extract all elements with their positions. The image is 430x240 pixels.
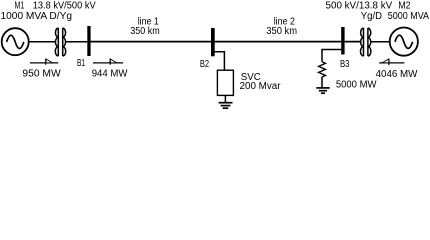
wire line 1 (B1 to B2)	[91, 41, 211, 43]
svg-text:4046 MW: 4046 MW	[376, 69, 418, 80]
svg-text:200 Mvar: 200 Mvar	[240, 81, 282, 92]
svg-text:1000 MVA D/Yg: 1000 MVA D/Yg	[1, 11, 73, 22]
svg-text:B2: B2	[200, 59, 210, 70]
wire line 2 (B2 to B3)	[215, 41, 342, 43]
svg-text:Yg/D: Yg/D	[361, 11, 382, 22]
wire T1 to bus B1	[66, 41, 88, 43]
ground (SVC)	[219, 103, 233, 109]
bus B3	[341, 27, 344, 55]
svg-text:13.8 kV/500 kV: 13.8 kV/500 kV	[33, 1, 96, 12]
svg-text:350 km: 350 km	[266, 26, 297, 37]
ground (load)	[316, 88, 329, 93]
svg-text:5000 MW: 5000 MW	[336, 80, 377, 91]
wire SVC to ground	[224, 95, 226, 102]
arrow 4046 MW (points left)	[379, 59, 404, 65]
wire B3 to transformer T2	[345, 41, 361, 43]
svg-text:500 kV/13.8 kV: 500 kV/13.8 kV	[326, 1, 393, 12]
wire resistor to ground	[321, 77, 323, 88]
transformer T1	[55, 28, 65, 56]
arrow 944 MW	[93, 59, 123, 65]
svg-text:944 MW: 944 MW	[92, 69, 128, 80]
svg-text:M1: M1	[15, 1, 25, 12]
wire T2 to generator M2	[371, 41, 390, 43]
wire M1 to transformer T1	[29, 41, 56, 43]
svg-text:950 MW: 950 MW	[22, 69, 61, 80]
wire B2 to SVC	[215, 52, 225, 70]
transformer T2	[361, 28, 371, 56]
svg-text:5000 MVA: 5000 MVA	[388, 11, 429, 22]
generator M2	[390, 27, 418, 55]
load resistor 5000 MW	[319, 62, 326, 77]
SVC block	[217, 70, 233, 95]
bus B1	[87, 26, 90, 56]
svg-text:B3: B3	[340, 59, 350, 70]
svg-text:M2: M2	[398, 1, 411, 12]
svg-text:B1: B1	[77, 58, 85, 69]
bus B2	[211, 28, 215, 56]
arrow 950 MW	[30, 59, 58, 65]
svg-text:350 km: 350 km	[130, 26, 160, 37]
generator M1	[2, 28, 29, 55]
wire B3 to load	[322, 50, 341, 62]
